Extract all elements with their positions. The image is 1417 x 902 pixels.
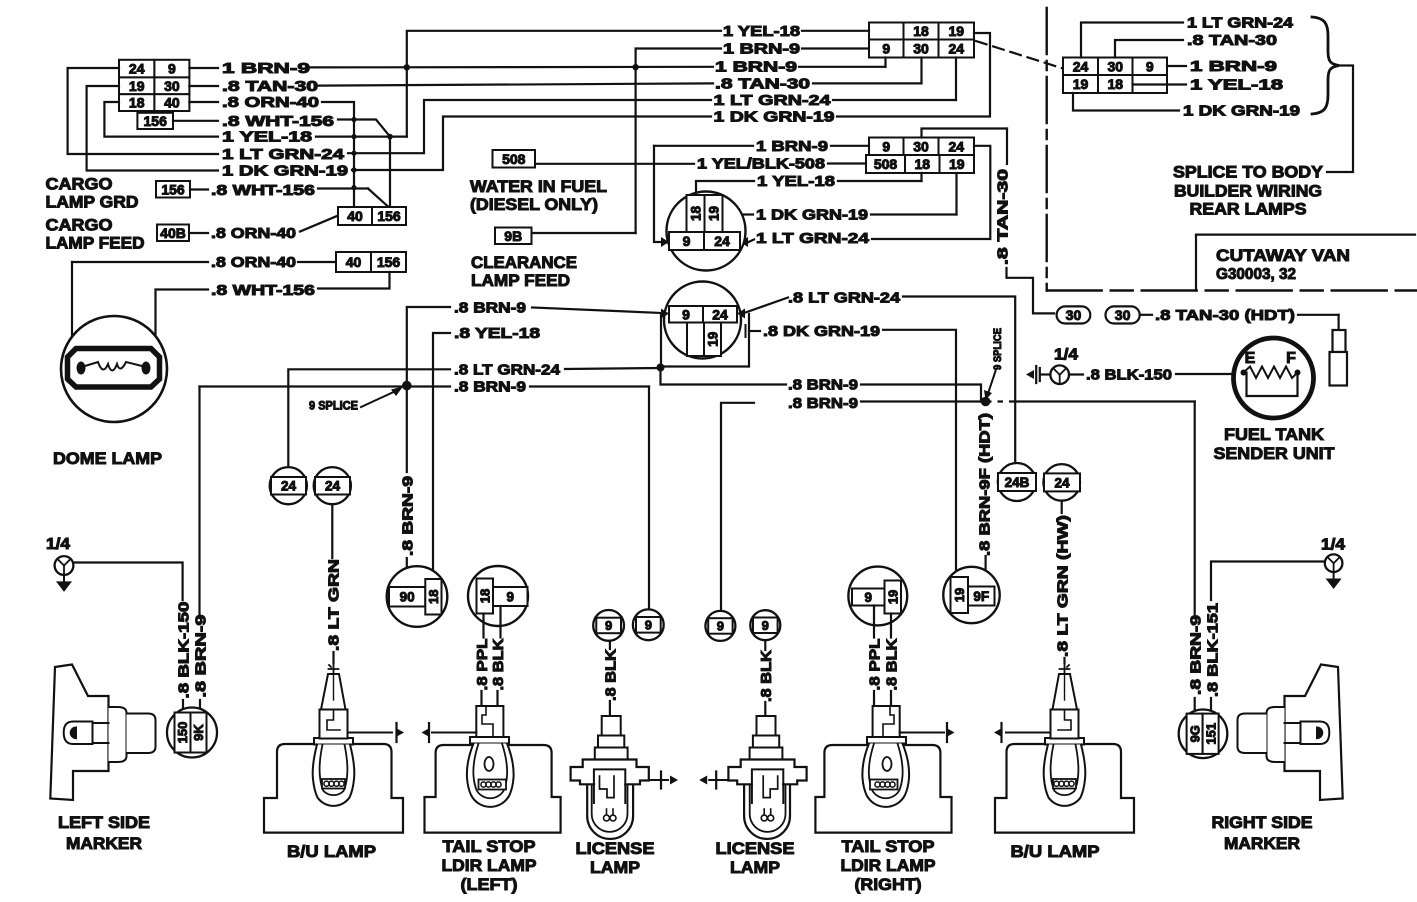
svg-text:LAMP GRD: LAMP GRD — [46, 194, 139, 212]
svg-text:.8 TAN-30: .8 TAN-30 — [995, 169, 1012, 265]
connector cell 156 below block — [137, 113, 173, 129]
wire from cell 19 to 1 DK GRN-19 (left loop) — [87, 86, 218, 171]
svg-text:1 LT GRN-24: 1 LT GRN-24 — [714, 92, 832, 109]
svg-text:156: 156 — [377, 208, 401, 224]
wire .8 WHT-156 cargo grd — [190, 188, 208, 190]
arrow line to 9 splice dot — [361, 390, 399, 408]
svg-text:508: 508 — [502, 151, 526, 167]
svg-text:30: 30 — [1115, 307, 1131, 323]
svg-text:40: 40 — [164, 95, 180, 111]
svg-text:LAMP FEED: LAMP FEED — [471, 272, 570, 290]
svg-text:9: 9 — [882, 138, 890, 154]
dome bulb filament — [77, 362, 86, 375]
wire stubs to 9G|151 connector — [1194, 698, 1196, 710]
svg-text:.8 TAN-30 (HDT): .8 TAN-30 (HDT) — [1155, 307, 1295, 324]
wire 1 YEL-18 run: right segment and riser to top — [316, 136, 407, 138]
svg-text:.8 DK GRN-19: .8 DK GRN-19 — [763, 323, 880, 340]
connector 9 circles (left license) — [593, 610, 624, 641]
svg-text:.8 BRN-9: .8 BRN-9 — [193, 615, 210, 698]
connector 150|9K circle — [167, 708, 217, 758]
svg-text:CUTAWAY VAN: CUTAWAY VAN — [1216, 246, 1350, 265]
svg-text:.8 TAN-30: .8 TAN-30 — [222, 78, 318, 95]
svg-text:.8 BLK-150: .8 BLK-150 — [176, 602, 193, 699]
wire .8 TAN-30 label line — [189, 85, 218, 87]
connector box 40|156 (upper) — [338, 207, 372, 225]
svg-text:1 LT GRN-24: 1 LT GRN-24 — [222, 146, 345, 163]
wire .8 TAN-30 long run to center — [318, 83, 713, 85]
wire 1 LT GRN-24 run with riser x424 — [348, 100, 711, 153]
svg-text:LAMP: LAMP — [590, 858, 640, 877]
svg-text:1 BRN-9: 1 BRN-9 — [715, 59, 797, 76]
svg-text:151: 151 — [1203, 723, 1218, 745]
svg-text:(DIESEL ONLY): (DIESEL ONLY) — [470, 196, 598, 214]
svg-text:FUEL TANK: FUEL TANK — [1224, 425, 1325, 444]
svg-text:.8 TAN-30: .8 TAN-30 — [1187, 32, 1277, 49]
wire ground to right marker connector — [1211, 562, 1325, 601]
round connector C220 (18,19 / 9,24) — [667, 192, 746, 271]
wire ground to marker connector — [74, 563, 183, 601]
svg-text:.8 PPL: .8 PPL — [474, 639, 491, 691]
wire .8 LT GRN (HW) to right B/U lamp — [1061, 501, 1063, 513]
svg-text:BUILDER WIRING: BUILDER WIRING — [1174, 183, 1322, 201]
svg-text:.8 BRN-9: .8 BRN-9 — [788, 377, 858, 394]
svg-text:SPLICE TO BODY: SPLICE TO BODY — [1173, 164, 1323, 182]
wire BRN-9 drop to right license lamp — [721, 403, 754, 610]
svg-text:156: 156 — [144, 113, 168, 129]
svg-text:9: 9 — [506, 589, 514, 604]
wire label .8 BLK rotated (left license) — [609, 641, 611, 649]
wire stubs 9|19 to right tail labels — [873, 606, 875, 638]
svg-text:40B: 40B — [160, 225, 186, 241]
svg-text:.8 ORN-40: .8 ORN-40 — [222, 94, 319, 111]
wire label .8 BLK rotated (right license) — [764, 641, 766, 651]
svg-text:30: 30 — [913, 41, 929, 57]
svg-text:DOME LAMP: DOME LAMP — [53, 449, 162, 468]
svg-text:19: 19 — [885, 590, 900, 604]
wire .8 BRN-9 splice run (left) — [200, 385, 451, 387]
connector 9 circles (right license) — [705, 611, 735, 641]
svg-text:.8 BLK: .8 BLK — [758, 650, 775, 702]
svg-text:9: 9 — [1146, 58, 1154, 74]
svg-text:1 YEL/BLK-508: 1 YEL/BLK-508 — [697, 156, 825, 173]
svg-text:LDIR LAMP: LDIR LAMP — [841, 856, 936, 875]
svg-text:.8 BLK-150: .8 BLK-150 — [1086, 367, 1172, 384]
svg-text:MARKER: MARKER — [1224, 835, 1300, 853]
wire dome feed riser x72 — [71, 262, 73, 357]
svg-text:18: 18 — [477, 589, 492, 603]
wire 508 to 1 YEL/BLK-508 — [537, 163, 694, 165]
dashed splice line to body builder block — [976, 41, 1063, 69]
van outline dash-dot vertical — [1045, 8, 1047, 291]
svg-text:G30003, 32: G30003, 32 — [1216, 266, 1296, 283]
fuel tank sender unit circle — [1234, 338, 1314, 418]
svg-text:.8 BRN-9: .8 BRN-9 — [454, 379, 526, 396]
svg-text:.8 WHT-156: .8 WHT-156 — [222, 113, 334, 130]
svg-text:.8 LT GRN (HW): .8 LT GRN (HW) — [1055, 515, 1072, 657]
connector block C210: cells 9,30,24 / 508,18,19 — [869, 138, 904, 156]
svg-text:30: 30 — [1107, 58, 1123, 74]
svg-text:18: 18 — [129, 95, 145, 111]
wire riser x636 (9B to CB1 BRN-9) — [636, 49, 721, 234]
svg-text:.8 YEL-18: .8 YEL-18 — [454, 325, 540, 342]
tail stop lamp (right, mirrored) — [815, 706, 954, 833]
svg-text:24: 24 — [1073, 58, 1089, 74]
svg-text:1/4: 1/4 — [46, 536, 70, 553]
svg-text:90: 90 — [400, 590, 415, 605]
wire BRN-9 run to right marker — [861, 400, 981, 402]
svg-text:(LEFT): (LEFT) — [461, 875, 518, 894]
svg-text:150: 150 — [175, 722, 190, 744]
wire .8 WHT-156 riser to splice box 156 — [338, 120, 390, 207]
svg-text:508: 508 — [874, 156, 898, 172]
svg-text:9F: 9F — [973, 589, 989, 604]
right side marker lamp (mirrored) — [1238, 665, 1343, 801]
junction dot BRN-9 at x406 — [404, 64, 410, 70]
connector block C300 body builder: 24,30,9 / 19,18,blank — [1063, 58, 1098, 76]
svg-text:30: 30 — [913, 138, 929, 154]
svg-text:156: 156 — [377, 254, 401, 270]
wire riser .8 BRN-9 to splice — [406, 307, 408, 385]
wire label 1 BRN-9 (C300) — [1167, 65, 1186, 67]
splice connector 24 (left b) — [314, 467, 351, 504]
svg-text:19: 19 — [705, 332, 720, 347]
svg-text:1 YEL-18: 1 YEL-18 — [222, 129, 312, 146]
svg-text:30: 30 — [164, 78, 180, 94]
svg-text:.8 BRN-9: .8 BRN-9 — [788, 395, 858, 412]
svg-text:.8 BLK: .8 BLK — [884, 638, 901, 690]
svg-text:9: 9 — [168, 61, 176, 77]
junction dot LT GRN-24 at bracket — [657, 364, 665, 372]
svg-text:.8 WHT-156: .8 WHT-156 — [211, 282, 315, 299]
connector cell 156 (cargo lamp grd) — [156, 181, 190, 198]
dome lamp festoon bulb — [68, 349, 160, 388]
svg-text:1 DK GRN-19: 1 DK GRN-19 — [756, 207, 868, 224]
svg-text:1/4: 1/4 — [1054, 347, 1078, 364]
license lamp (right, mirrored) — [699, 716, 806, 839]
svg-text:LAMP FEED: LAMP FEED — [46, 235, 145, 253]
svg-text:.8 PPL: .8 PPL — [867, 639, 884, 691]
svg-text:24: 24 — [325, 479, 341, 494]
wire .8 WHT-156 to dome lamp — [318, 272, 390, 289]
svg-text:TAIL STOP: TAIL STOP — [842, 837, 935, 856]
wire .8 TAN-30 riser from CB2 — [922, 129, 1008, 138]
wire stub to 19|9F connector — [984, 556, 986, 587]
svg-text:CLEARANCE: CLEARANCE — [471, 254, 577, 272]
svg-text:19: 19 — [129, 78, 145, 94]
wire label .8 TAN-30 (C300) — [1115, 40, 1183, 58]
wire 1 DK GRN-19 run with riser x443 — [352, 117, 711, 171]
wire label 1 LT GRN-24 (C300) — [1081, 23, 1183, 58]
svg-text:40: 40 — [346, 254, 362, 270]
svg-text:.8 BLK-151: .8 BLK-151 — [1204, 603, 1221, 697]
svg-text:9: 9 — [864, 590, 872, 605]
license lamp (left) — [571, 716, 678, 839]
svg-text:.8 BRN-9: .8 BRN-9 — [454, 299, 526, 316]
svg-text:.8 LT GRN: .8 LT GRN — [325, 559, 342, 651]
svg-text:9: 9 — [605, 618, 612, 633]
svg-text:1 DK GRN-19: 1 DK GRN-19 — [714, 109, 835, 126]
dash gaps on HDT splice line — [992, 400, 998, 405]
wire .8 BRN-9 rotated label to 90|18 — [406, 390, 408, 472]
svg-text:MARKER: MARKER — [66, 835, 142, 853]
wire LT GRN-24 to 24B splice — [903, 297, 1015, 474]
svg-text:.8 ORN-40: .8 ORN-40 — [211, 225, 296, 242]
svg-text:18: 18 — [1107, 76, 1123, 92]
svg-text:24: 24 — [714, 233, 730, 249]
brace to splice note — [1312, 17, 1339, 114]
wire .8 BRN-9 from bracket dot to label (right) — [661, 368, 787, 385]
B/U lamp (right, mirrored) — [994, 663, 1134, 833]
svg-text:.8 BRN-9: .8 BRN-9 — [1187, 615, 1204, 695]
svg-text:1 LT GRN-24: 1 LT GRN-24 — [1187, 15, 1294, 32]
wire diagonal into 40 cell — [300, 216, 337, 232]
wire stubs to 150|9K connector — [182, 700, 184, 708]
svg-text:CARGO: CARGO — [46, 176, 113, 194]
svg-text:9B: 9B — [504, 228, 522, 244]
wire drop to pigtail — [1337, 315, 1339, 330]
svg-text:1 YEL-18: 1 YEL-18 — [723, 23, 800, 40]
svg-text:19: 19 — [1073, 76, 1089, 92]
wire drop to right side marker — [1194, 402, 1196, 615]
round connector C230 circle — [664, 282, 741, 359]
left side marker lamp — [50, 665, 155, 801]
wire label 1 YEL-18 (C300) — [1133, 83, 1187, 85]
wire drop to left side marker — [198, 387, 200, 615]
van outline dash horizontal — [1047, 289, 1417, 291]
wire from cell 18 to 1 YEL-18 (left loop) — [104, 102, 218, 137]
svg-text:(RIGHT): (RIGHT) — [855, 875, 922, 894]
pigtail connector — [1333, 330, 1346, 352]
svg-text:18: 18 — [914, 156, 930, 172]
connector 9G|151 circle — [1179, 710, 1228, 759]
junction dot 9 splice (right) — [981, 397, 991, 407]
wire .8 LT GRN to B/U lamp — [331, 504, 333, 558]
connector 9|19 circle (right tail) — [848, 567, 907, 626]
svg-text:1 BRN-9: 1 BRN-9 — [1190, 58, 1277, 75]
svg-text:9: 9 — [717, 619, 724, 634]
wire label 1 DK GRN-19 (C300) — [1073, 93, 1179, 111]
svg-text:156: 156 — [161, 181, 185, 197]
CUTAWAY VAN box — [1196, 234, 1415, 236]
svg-text:9: 9 — [645, 617, 652, 632]
wire .8 BRN-9 to C230 — [532, 308, 662, 314]
connector block C100 (cargo/dome feed) cells 24,9 / 19,30 / 18,40 — [119, 60, 154, 78]
svg-text:24B: 24B — [1005, 475, 1030, 490]
svg-text:9: 9 — [882, 41, 890, 57]
wire diagonal into 40|156 splice box — [318, 187, 368, 189]
wire .8 LT GRN-24 to 24 splice circle — [288, 369, 450, 477]
junction dot 9 splice (left) — [402, 381, 412, 391]
svg-text:WATER IN FUEL: WATER IN FUEL — [470, 178, 607, 196]
svg-text:9: 9 — [682, 306, 690, 322]
svg-text:19: 19 — [948, 23, 964, 39]
connector cell 40B — [157, 225, 189, 242]
svg-text:REAR LAMPS: REAR LAMPS — [1190, 201, 1307, 219]
svg-text:1 YEL-18: 1 YEL-18 — [757, 173, 835, 190]
svg-text:1 BRN-9: 1 BRN-9 — [222, 60, 310, 77]
svg-text:24: 24 — [281, 479, 297, 494]
svg-text:LICENSE: LICENSE — [576, 839, 655, 858]
wire .8 ORN-40 to dome lamp — [72, 261, 208, 263]
svg-text:24: 24 — [712, 306, 728, 322]
wire .8 ORN-40 riser x354 to splice box 40 — [322, 102, 354, 207]
connector cell 9B — [495, 228, 532, 245]
arrow into C230 left — [661, 309, 669, 319]
wire label .8 TAN-30 (HDT) — [1140, 314, 1152, 316]
svg-text:9K: 9K — [191, 724, 206, 741]
connector 30 (oval a) — [1057, 306, 1091, 323]
sender resistor element — [1241, 370, 1247, 376]
connector 19|9F circle — [943, 567, 999, 623]
arrow from round connector 24 cell — [740, 237, 748, 247]
junction dot on YEL-18 line — [387, 134, 393, 140]
svg-text:1/4: 1/4 — [1321, 537, 1345, 554]
svg-text:.8 BRN-9F (HDT): .8 BRN-9F (HDT) — [977, 413, 994, 556]
svg-text:19: 19 — [952, 588, 967, 602]
svg-text:9: 9 — [762, 618, 769, 633]
svg-text:18: 18 — [688, 206, 703, 222]
splice connector 24 (left a) — [270, 467, 307, 504]
svg-text:LDIR LAMP: LDIR LAMP — [442, 856, 537, 875]
svg-text:18: 18 — [913, 23, 929, 39]
svg-text:LEFT SIDE: LEFT SIDE — [58, 814, 150, 832]
svg-text:CARGO: CARGO — [46, 217, 113, 235]
svg-text:LAMP: LAMP — [730, 858, 780, 877]
svg-text:.8 WHT-156: .8 WHT-156 — [211, 182, 315, 199]
round connector C230 housing bracket — [661, 314, 749, 367]
connector 90|18 circle — [387, 566, 448, 627]
connector cell 508 — [493, 150, 536, 168]
svg-text:1 BRN-9: 1 BRN-9 — [723, 41, 800, 58]
arrow into round connector 9 cell — [661, 237, 669, 247]
svg-text:.8 BRN-9: .8 BRN-9 — [399, 476, 416, 556]
svg-text:.8 BLK: .8 BLK — [602, 649, 619, 701]
svg-text:RIGHT SIDE: RIGHT SIDE — [1212, 814, 1313, 832]
connector 18|9 circle — [468, 566, 528, 626]
svg-text:9 SPLICE: 9 SPLICE — [992, 328, 1004, 370]
svg-text:24: 24 — [1054, 475, 1070, 490]
wire 1 BRN-9 label line (block to label) — [189, 67, 218, 69]
svg-text:E: E — [1245, 350, 1256, 367]
junction dots on ORN-40 riser — [351, 117, 356, 122]
svg-text:.8 TAN-30: .8 TAN-30 — [715, 75, 810, 92]
svg-text:F: F — [1286, 350, 1296, 367]
svg-text:30: 30 — [1066, 307, 1082, 323]
svg-text:1 LT GRN-24: 1 LT GRN-24 — [756, 230, 870, 247]
svg-text:24: 24 — [948, 41, 964, 57]
svg-text:19: 19 — [949, 156, 965, 172]
svg-text:.8 LT GRN-24: .8 LT GRN-24 — [788, 289, 901, 306]
junction dot BRN-9 at x636 — [632, 64, 638, 70]
wire to 30 connector — [1007, 268, 1055, 313]
svg-text:19: 19 — [706, 206, 721, 221]
dome lamp circle — [61, 316, 167, 422]
svg-text:1 BRN-9: 1 BRN-9 — [756, 138, 828, 155]
wire .8 ORN-40 cargo feed — [189, 232, 208, 234]
svg-text:1 DK GRN-19: 1 DK GRN-19 — [1183, 103, 1300, 120]
svg-text:B/U LAMP: B/U LAMP — [287, 842, 376, 861]
wire .8 DK GRN-19 from C230 — [749, 330, 760, 332]
B/U lamp (left) — [264, 663, 404, 833]
wire drop to left license lamp — [648, 387, 650, 610]
svg-text:24: 24 — [948, 138, 964, 154]
connector block C200 top: cells blank,18,19 / 9,30,24 — [869, 23, 904, 40]
svg-text:18: 18 — [426, 590, 441, 604]
connector box 40|156 (lower) — [336, 252, 371, 272]
svg-text:.8 BLK: .8 BLK — [490, 638, 507, 690]
wire .8 ORN-40 label line — [189, 101, 218, 103]
wire stubs 18|9 to tail lamp labels — [482, 614, 484, 638]
wire 9B clearance feed — [533, 232, 636, 234]
svg-text:.8 ORN-40: .8 ORN-40 — [211, 254, 296, 271]
brace connector line — [1327, 66, 1353, 173]
svg-text:TAIL STOP: TAIL STOP — [443, 837, 536, 856]
splice connector 24B (right) — [998, 463, 1036, 501]
wire .8 WHT-156 label line — [173, 120, 218, 122]
svg-text:1 YEL-18: 1 YEL-18 — [1190, 77, 1283, 94]
svg-text:9: 9 — [683, 233, 691, 249]
wire .8 LT GRN-24 label (right of C230) — [744, 298, 788, 314]
svg-text:.8 LT GRN-24: .8 LT GRN-24 — [454, 361, 561, 378]
splice connector 24 (right) — [1043, 464, 1080, 501]
svg-text:9G: 9G — [1187, 725, 1202, 742]
svg-text:40: 40 — [347, 208, 363, 224]
svg-text:SENDER UNIT: SENDER UNIT — [1214, 444, 1336, 463]
arrow into C230 right — [737, 309, 745, 319]
wire from cell 24 to 1 LT GRN-24 (left loop) — [68, 68, 218, 154]
svg-text:1 DK GRN-19: 1 DK GRN-19 — [222, 163, 348, 180]
connector 30 (oval b) — [1106, 306, 1140, 323]
svg-text:9 SPLICE: 9 SPLICE — [309, 401, 358, 413]
tail stop lamp (left) — [422, 706, 561, 833]
svg-text:24: 24 — [129, 61, 145, 77]
svg-text:LICENSE: LICENSE — [716, 839, 795, 858]
svg-text:B/U LAMP: B/U LAMP — [1011, 842, 1100, 861]
wire 1 BRN-9 long run to center — [310, 66, 713, 69]
wire BRN-9 drop to round connector — [654, 146, 661, 242]
